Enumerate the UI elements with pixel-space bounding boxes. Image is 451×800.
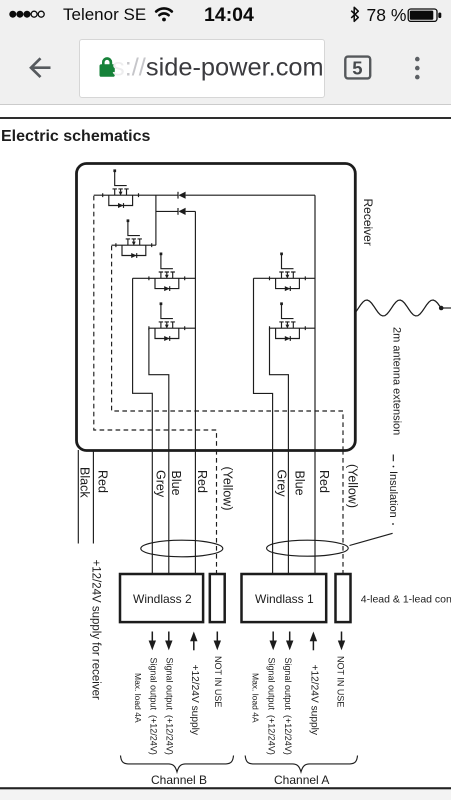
svg-text:Red: Red	[95, 470, 109, 493]
dashed yellow B below box	[216, 450, 218, 574]
svg-text:Windlass 1: Windlass 1	[255, 592, 314, 606]
svg-text:(Yellow): (Yellow)	[346, 464, 360, 508]
dashed yellow net B	[112, 246, 343, 450]
receiver supply lead black	[77, 450, 79, 544]
wire grey B below box	[151, 450, 153, 574]
svg-text:14:04: 14:04	[204, 4, 254, 26]
svg-text:+12/24V supply: +12/24V supply	[308, 665, 319, 736]
diode D1	[178, 192, 186, 199]
wire M5 left leg	[254, 278, 273, 450]
wire red A below box	[314, 450, 316, 574]
battery icon	[408, 9, 437, 21]
svg-text:Receiver: Receiver	[361, 199, 375, 246]
receiver supply lead red	[92, 450, 94, 544]
transistor M4	[149, 302, 185, 341]
bottom rule	[0, 787, 451, 789]
windlass 2 box	[120, 574, 203, 622]
svg-text:NOT IN USE: NOT IN USE	[213, 656, 223, 707]
wire mid bus down	[194, 211, 196, 450]
wire right bus down	[314, 195, 316, 450]
terminal box B	[210, 574, 225, 622]
dashed yellow A below box	[342, 450, 344, 574]
dashed yellow net A	[94, 196, 217, 450]
padlock	[100, 57, 115, 77]
svg-text:78 %: 78 %	[367, 5, 407, 25]
page divider line	[0, 117, 451, 119]
wire D2 branch	[156, 210, 196, 212]
arrow A1 down	[270, 632, 277, 651]
antenna end dot	[439, 306, 444, 311]
wire M3 stubs	[133, 277, 196, 279]
arrow A4 down	[338, 632, 345, 651]
wire M3 left leg	[133, 278, 153, 450]
arrow B2 down	[165, 632, 172, 651]
wire M1 to M2 drop	[155, 195, 157, 245]
svg-text:Black: Black	[77, 467, 91, 498]
svg-text:Red: Red	[317, 470, 331, 493]
svg-text:2m antenna extension: 2m antenna extension	[391, 327, 403, 435]
svg-text:Grey: Grey	[154, 470, 168, 498]
antenna end wire	[441, 307, 451, 309]
transistor M2	[116, 219, 152, 258]
wifi icon	[156, 8, 172, 21]
status bar	[0, 0, 451, 30]
insulation dots	[393, 466, 395, 468]
back arrow	[31, 58, 51, 77]
svg-text:Signal output (+12/24V): Signal output (+12/24V)	[148, 658, 158, 755]
browser toolbar	[0, 30, 451, 105]
menu dots	[415, 57, 420, 80]
tab counter box	[345, 57, 370, 79]
antenna squiggle	[356, 300, 441, 316]
svg-text:Max. load 4A: Max. load 4A	[133, 673, 143, 723]
url pill	[79, 39, 325, 98]
wire M4 left leg	[149, 328, 169, 450]
insulation leader	[350, 455, 394, 546]
wire M5 stubs	[254, 277, 316, 279]
transistor M1	[103, 169, 139, 208]
wire blue A below box	[287, 450, 289, 574]
arrow A3 up	[310, 632, 317, 651]
svg-text:Blue: Blue	[293, 471, 307, 496]
signal dots	[9, 11, 30, 18]
arrow B4 down	[214, 632, 221, 651]
page title	[1, 128, 451, 146]
cable bundle ellipse A	[267, 540, 349, 556]
transistor M5	[270, 252, 306, 291]
arrow B3 up	[190, 632, 197, 651]
brace channel B	[121, 756, 234, 772]
svg-text:Signal output (+12/24V): Signal output (+12/24V)	[283, 658, 293, 755]
wire M2 stubs	[112, 244, 156, 246]
svg-text:Blue: Blue	[169, 471, 183, 496]
svg-text:Signal output (+12/24V): Signal output (+12/24V)	[266, 658, 276, 755]
transistor M6	[270, 302, 306, 341]
svg-text:Windlass 2: Windlass 2	[133, 592, 192, 606]
terminal box A	[336, 574, 351, 622]
windlass 1 box	[242, 574, 327, 622]
svg-text:Signal output (+12/24V): Signal output (+12/24V)	[165, 658, 175, 755]
cable bundle ellipse B	[141, 540, 223, 557]
wire blue B below box	[168, 450, 170, 574]
transistor M3	[149, 252, 185, 291]
svg-text:Channel B: Channel B	[151, 773, 207, 787]
svg-text:Grey: Grey	[274, 470, 288, 498]
wire M1 row	[94, 194, 315, 196]
brace channel A	[245, 756, 357, 772]
svg-text:5: 5	[352, 58, 362, 79]
svg-text:Telenor SE: Telenor SE	[63, 5, 146, 24]
bluetooth icon	[351, 7, 358, 21]
wire red B below box	[194, 450, 196, 574]
svg-text:Red: Red	[195, 470, 209, 493]
svg-text:Max. load 4A: Max. load 4A	[251, 673, 261, 723]
diode D2	[178, 208, 186, 215]
receiver box	[77, 164, 356, 451]
svg-text:Insulation: Insulation	[387, 471, 399, 518]
svg-text:+12/24V supply: +12/24V supply	[189, 665, 200, 736]
svg-text:Channel A: Channel A	[274, 773, 329, 787]
svg-text:+12/24V supply for receiver: +12/24V supply for receiver	[90, 560, 102, 700]
svg-text:(Yellow): (Yellow)	[220, 467, 234, 511]
svg-text:s://side-power.com: s://side-power.com	[112, 54, 324, 82]
svg-text:4-lead & 1-lead conn: 4-lead & 1-lead conn	[361, 594, 451, 606]
arrow B1 down	[149, 632, 156, 651]
wire grey A below box	[272, 450, 274, 574]
wire M4 right stub	[185, 327, 196, 329]
arrow A2 down	[286, 632, 293, 651]
svg-text:NOT IN USE: NOT IN USE	[336, 656, 346, 707]
wire M6 right stub	[305, 327, 315, 329]
wire M6 left leg	[270, 328, 289, 450]
